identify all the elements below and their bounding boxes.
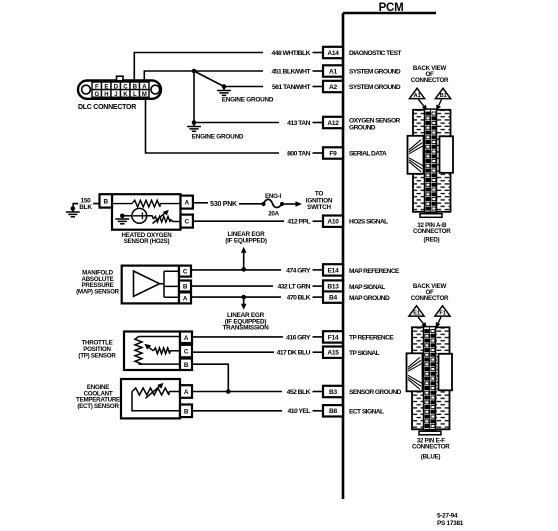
wire stub to A1 (313, 70, 323, 72)
svg-text:B13: B13 (327, 284, 339, 291)
svg-text:ENG-I: ENG-I (265, 193, 281, 200)
svg-text:A: A (184, 335, 189, 342)
ECT internal thermistor (132, 383, 180, 411)
svg-text:TP SIGNAL: TP SIGNAL (349, 350, 380, 357)
arrow to linear EGR down (241, 297, 247, 310)
32 pin A-B connector terminal channel (425, 109, 437, 214)
label 32 pin A-B connector caption (413, 222, 451, 235)
wire stub to F14 (313, 336, 323, 338)
svg-text:B8: B8 (329, 408, 338, 415)
svg-text:A: A (183, 296, 188, 303)
svg-text:BLK: BLK (79, 204, 92, 211)
callout triangle A1 (409, 88, 424, 99)
svg-text:B: B (184, 409, 189, 416)
svg-text:5-27-94: 5-27-94 (437, 513, 458, 520)
svg-text:448 WHT/BLK: 448 WHT/BLK (271, 50, 310, 57)
svg-text:(TP) SENSOR: (TP) SENSOR (78, 352, 116, 359)
pointer A1 to connector (419, 100, 428, 111)
label ENGINE COOLANT TEMPERATURE (ECT) SENSOR (76, 384, 120, 410)
wire stub to A15 (313, 351, 323, 353)
svg-text:HO2S SIGNAL: HO2S SIGNAL (349, 219, 388, 226)
svg-text:F1: F1 (439, 311, 446, 317)
svg-text:SYSTEM GROUND: SYSTEM GROUND (349, 84, 401, 91)
pin box F14 (323, 331, 343, 342)
label TP REFERENCE (349, 335, 394, 342)
wire stub to F9 (313, 152, 323, 154)
engine ground 1 (217, 84, 231, 95)
wire 412 PPL (193, 220, 284, 222)
HO2S variable resistor to pin C (147, 210, 181, 224)
wire 452 BLK (192, 391, 282, 393)
wire stub to E14 (313, 269, 323, 271)
HO2S pin A (181, 196, 193, 209)
svg-text:C: C (185, 219, 190, 226)
svg-text:470 BLK: 470 BLK (287, 295, 311, 302)
svg-text:417 DK BLU: 417 DK BLU (277, 350, 311, 357)
svg-text:MAP GROUND: MAP GROUND (349, 295, 390, 302)
label ECT SIGNAL (349, 409, 384, 416)
wire 451 BLK/WHT from DLC pin A (144, 71, 263, 81)
pin box A14 (323, 47, 343, 58)
HO2S pin C (181, 215, 193, 228)
wire 530 PNK right segment (239, 203, 263, 205)
svg-text:413 TAN: 413 TAN (287, 120, 310, 127)
svg-text:20A: 20A (268, 210, 279, 217)
svg-text:MAP SIGNAL: MAP SIGNAL (349, 284, 385, 291)
svg-text:ENGINE GROUND: ENGINE GROUND (192, 133, 244, 140)
svg-text:L: L (133, 92, 137, 98)
pointer B1 to connector (436, 100, 441, 111)
svg-text:B4: B4 (329, 295, 338, 302)
svg-text:F9: F9 (329, 150, 337, 157)
wire stub to A14 (313, 52, 323, 54)
MAP pin C (179, 266, 191, 277)
svg-text:SENSOR GROUND: SENSOR GROUND (349, 389, 402, 396)
svg-text:A2: A2 (329, 84, 338, 91)
wire 530 PNK left segment (193, 202, 208, 204)
junction on 451 BLK/WHT (192, 69, 197, 74)
wire stub to A2 (313, 86, 323, 88)
svg-text:(IF EQUIPPED): (IF EQUIPPED) (225, 237, 267, 244)
svg-text:(RED): (RED) (424, 237, 440, 244)
arrow to ignition switch (282, 201, 302, 207)
svg-text:B: B (104, 198, 109, 205)
svg-text:B1: B1 (440, 93, 448, 99)
callout triangle B1 (435, 88, 450, 99)
svg-text:(BLUE): (BLUE) (421, 454, 441, 461)
TP internal potentiometer (135, 337, 180, 365)
svg-text:MAP REFERENCE: MAP REFERENCE (349, 268, 400, 275)
wire stub to B3 (313, 391, 323, 393)
ground symbol 150 BLK (66, 206, 80, 217)
TP pin C (180, 345, 192, 358)
svg-text:A1: A1 (414, 93, 422, 99)
svg-text:(MAP) SENSOR: (MAP) SENSOR (76, 289, 120, 296)
wire 474 GRY (191, 269, 281, 271)
junction TP/ECT ground (226, 389, 231, 394)
svg-text:E1: E1 (413, 311, 421, 317)
label TO IGNITION SWITCH (306, 191, 333, 211)
svg-text:A: A (184, 389, 189, 396)
junction on 470 BLK (241, 295, 246, 300)
label OXYGEN SENSOR GROUND (349, 117, 401, 131)
label BACK VIEW OF CONNECTOR top (411, 65, 449, 84)
wire 416 GRY (192, 336, 283, 338)
ECT pin A (180, 385, 192, 398)
ECT sensor body (121, 379, 180, 418)
svg-text:530 PNK: 530 PNK (210, 201, 237, 208)
pin box B13 (323, 280, 343, 291)
svg-text:B: B (183, 284, 188, 291)
label SENSOR GROUND (349, 389, 402, 396)
svg-text:C: C (184, 349, 189, 356)
svg-text:A1: A1 (329, 68, 338, 75)
svg-text:800 TAN: 800 TAN (287, 150, 310, 157)
wire stub to A10 (313, 220, 323, 222)
TP pin B (180, 359, 192, 371)
svg-text:A15: A15 (327, 350, 339, 357)
pin box E14 (323, 264, 343, 275)
callout triangle E1 (409, 306, 424, 317)
svg-text:(ECT) SENSOR: (ECT) SENSOR (77, 403, 119, 410)
wire 470 BLK (191, 296, 281, 298)
svg-text:410 YEL: 410 YEL (288, 408, 311, 415)
svg-text:SYSTEM GROUND: SYSTEM GROUND (349, 69, 401, 76)
svg-text:TP REFERENCE: TP REFERENCE (349, 335, 394, 342)
svg-text:F14: F14 (328, 334, 339, 341)
pin box A10 (323, 216, 343, 227)
wire stub to A12 (313, 122, 323, 124)
PCM boundary line (343, 13, 436, 499)
label MAP SIGNAL (349, 284, 385, 291)
32 pin E-F connector left latch wing (407, 353, 423, 391)
pin box A1 (323, 65, 343, 76)
HO2S internal ground (115, 214, 129, 224)
label (BLUE) (421, 454, 441, 461)
svg-text:E14: E14 (328, 267, 340, 274)
label BACK VIEW OF CONNECTOR bottom (411, 283, 449, 302)
wire 448 WHT/BLK from DLC pin B (134, 53, 263, 81)
pin box A2 (323, 81, 343, 92)
wire stub to B13 (313, 285, 323, 287)
svg-text:432 LT GRN: 432 LT GRN (277, 284, 310, 291)
svg-text:GROUND: GROUND (349, 124, 376, 131)
svg-text:C: C (183, 269, 188, 276)
label MAP REFERENCE (349, 268, 400, 275)
svg-text:SENSOR (HO2S): SENSOR (HO2S) (124, 238, 170, 245)
svg-text:452 BLK: 452 BLK (287, 389, 311, 396)
svg-text:ECT SIGNAL: ECT SIGNAL (349, 409, 384, 416)
32 pin E-F connector hatched body (412, 327, 450, 429)
pin box A12 (323, 117, 343, 128)
callout triangle F1 (435, 306, 450, 317)
label LINEAR EGR (IF EQUIPPED) TRANSMISSION (223, 312, 270, 332)
wire stub to B4 (313, 296, 323, 298)
pin box A15 (323, 347, 343, 358)
label SYSTEM GROUND A2 (349, 84, 401, 91)
svg-text:A12: A12 (327, 120, 339, 127)
pointer F1 to connector (436, 317, 441, 328)
MAP pin B (179, 281, 191, 292)
32 pin E-F connector bottom tab (419, 429, 441, 435)
svg-text:G: G (95, 92, 100, 98)
svg-text:J: J (114, 92, 117, 98)
wire junction to engine ground 1 (194, 71, 224, 87)
svg-text:A10: A10 (327, 219, 339, 226)
32 pin A-B connector bottom tab (420, 211, 442, 217)
label HEATED OXYGEN SENSOR (HO2S) (122, 232, 173, 245)
MAP pin A (179, 292, 191, 303)
svg-text:A14: A14 (327, 50, 339, 57)
svg-text:CONNECTOR: CONNECTOR (411, 77, 449, 84)
pin box B3 (323, 386, 343, 397)
TP pin A (180, 332, 192, 344)
svg-text:PCM: PCM (379, 2, 404, 14)
32 pin E-F connector right latch wing (439, 354, 453, 391)
32 pin E-F connector terminal channel (424, 327, 436, 432)
svg-text:SWITCH: SWITCH (307, 204, 331, 211)
DLC connector (78, 76, 161, 99)
svg-text:TRANSMISSION: TRANSMISSION (223, 325, 270, 332)
label (RED) (424, 237, 440, 244)
svg-text:B: B (184, 362, 189, 369)
svg-text:H: H (104, 92, 108, 98)
wire stub to B8 (313, 410, 323, 412)
label LINEAR EGR (IF EQUIPPED) (225, 231, 267, 244)
svg-text:M: M (142, 92, 147, 98)
HO2S reference voltage source (122, 208, 146, 223)
label THROTTLE POSITION (TP) SENSOR (78, 340, 116, 360)
TP sensor body (124, 332, 180, 371)
label MANIFOLD ABSOLUTE PRESSURE (MAP) SENSOR (76, 270, 120, 296)
32 pin A-B connector right latch wing (440, 136, 454, 173)
label SYSTEM GROUND A1 (349, 69, 401, 76)
pin box F9 (323, 147, 343, 158)
svg-text:561 TAN/WHT: 561 TAN/WHT (272, 84, 311, 91)
svg-text:PS 17381: PS 17381 (437, 520, 464, 527)
wire 561 TAN/WHT (224, 86, 263, 88)
svg-text:412 PPL: 412 PPL (287, 219, 310, 226)
engine ground 2 (187, 120, 201, 131)
label HO2S SIGNAL (349, 219, 388, 226)
wire 432 LT GRN (191, 285, 273, 287)
HO2S pin B (100, 194, 113, 207)
wire 417 DK BLU (192, 351, 274, 353)
HO2S sensor body (112, 194, 181, 230)
label TP SIGNAL (349, 350, 380, 357)
svg-text:416 GRY: 416 GRY (286, 334, 311, 341)
svg-text:B3: B3 (329, 389, 338, 396)
label ENGINE GROUND 1 (222, 97, 274, 104)
label DIAGNOSTIC TEST (349, 50, 401, 57)
pin box B8 (323, 405, 343, 416)
ECT pin B (180, 405, 192, 418)
wire junction down to engine ground 2 (193, 71, 195, 123)
junction on 474 GRY (241, 267, 246, 272)
ground at HO2S heater (73, 204, 98, 209)
HO2S heater resistor (112, 200, 181, 207)
svg-text:SERIAL DATA: SERIAL DATA (349, 151, 387, 158)
svg-text:CONNECTOR: CONNECTOR (413, 228, 451, 235)
svg-text:451 BLK/WHT: 451 BLK/WHT (271, 68, 311, 75)
arrow to linear EGR up (241, 247, 247, 270)
pointer E1 to connector (418, 317, 427, 328)
32 pin A-B connector hatched body (413, 110, 451, 212)
wire 413 TAN (194, 122, 279, 124)
label 32 pin E-F connector caption (412, 438, 450, 451)
label SERIAL DATA (349, 151, 387, 158)
svg-text:DIAGNOSTIC TEST: DIAGNOSTIC TEST (349, 50, 401, 57)
wire TP ground to junction (192, 364, 228, 391)
label ENGINE GROUND 2 (192, 133, 244, 140)
svg-text:A: A (185, 200, 190, 207)
fuse ENG-I 20A (261, 199, 284, 207)
svg-text:DLC CONNECTOR: DLC CONNECTOR (78, 104, 136, 111)
MAP internal amplifier triangle (134, 271, 180, 297)
svg-text:CONNECTOR: CONNECTOR (411, 295, 449, 302)
wire 800 TAN from DLC pin M (146, 99, 280, 153)
label MAP GROUND (349, 295, 390, 302)
pin box B4 (323, 291, 343, 302)
svg-text:474 GRY: 474 GRY (286, 267, 311, 274)
svg-text:CONNECTOR: CONNECTOR (412, 444, 450, 451)
wire 410 YEL (192, 410, 282, 412)
32 pin A-B connector left latch wing (408, 136, 424, 174)
svg-text:OXYGEN SENSOR: OXYGEN SENSOR (349, 117, 401, 124)
MAP sensor body (122, 266, 179, 304)
svg-text:ENGINE GROUND: ENGINE GROUND (222, 97, 274, 104)
